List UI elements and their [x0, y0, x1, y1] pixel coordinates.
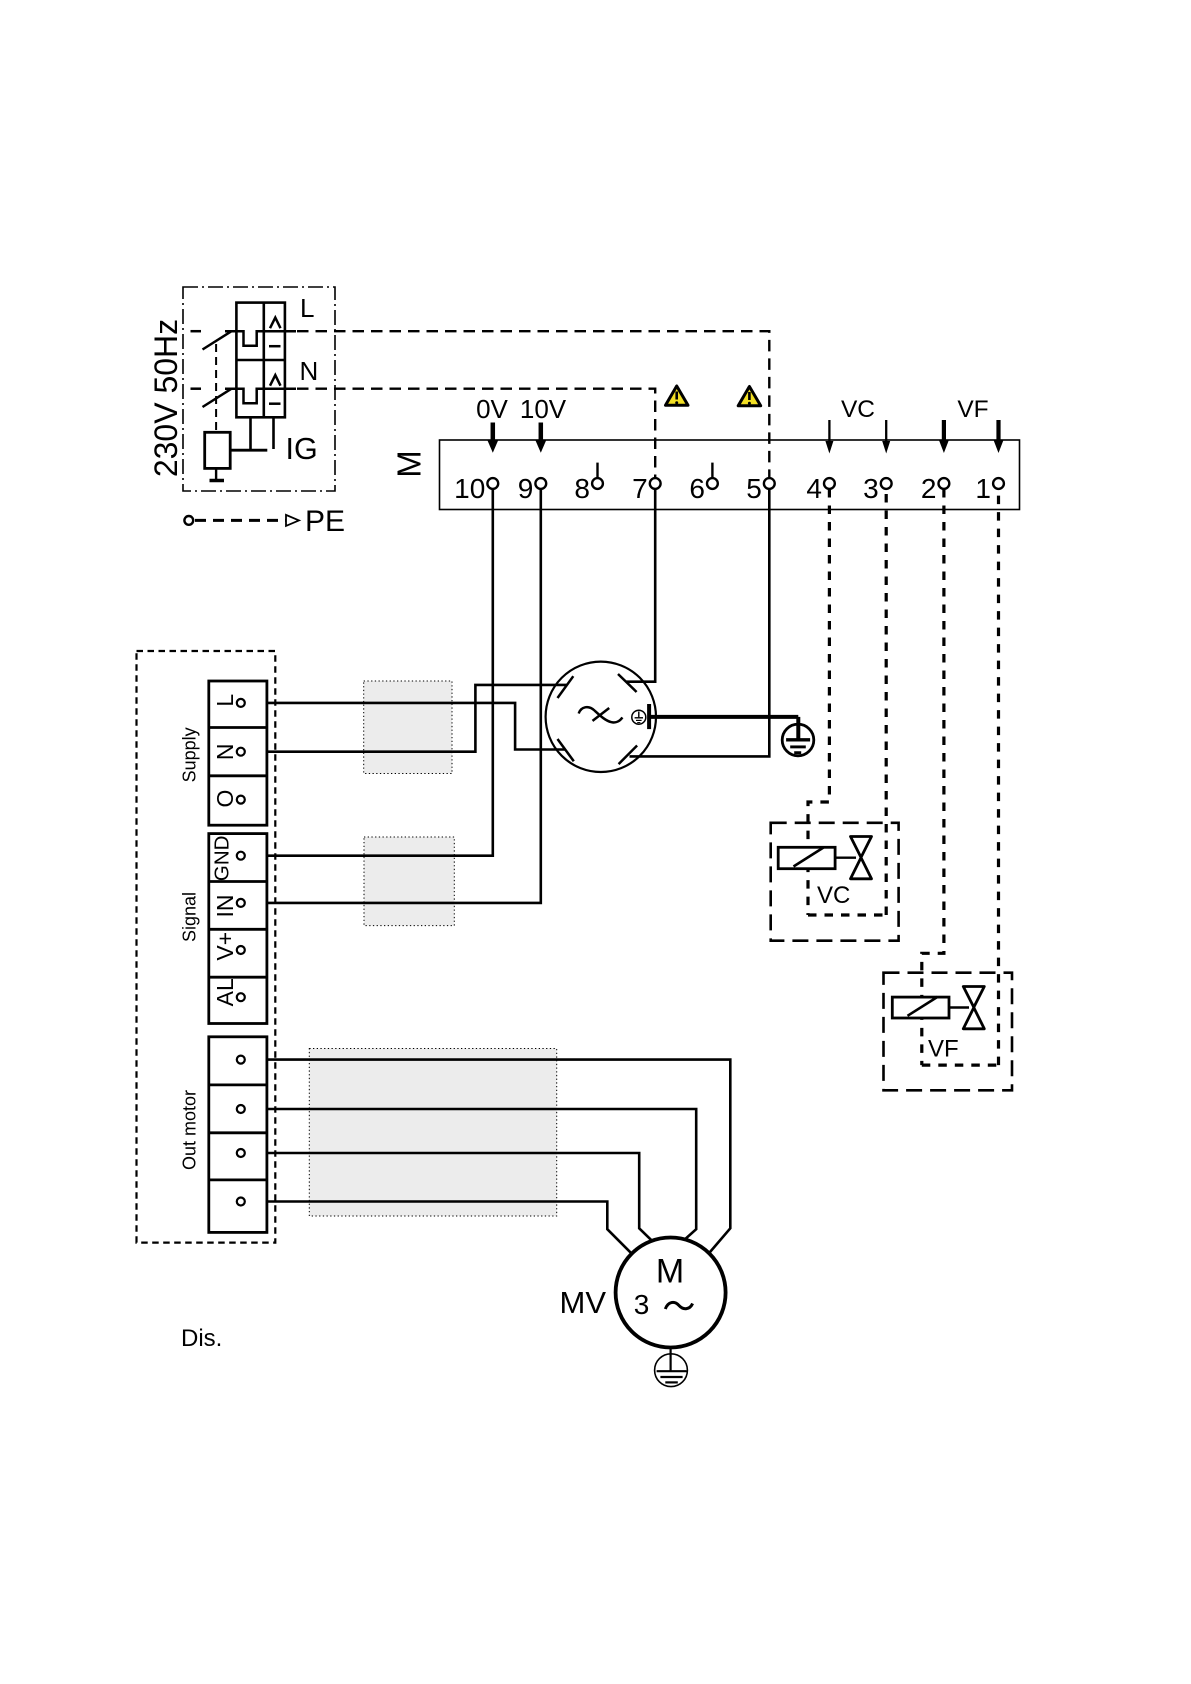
wire VC bottom link — [808, 913, 886, 916]
terminal blocks outer dotted box — [137, 651, 276, 1243]
wire out motor 2 — [245, 1109, 696, 1241]
shaded zone out-motor wires — [309, 1049, 556, 1217]
signal terminal V+ — [212, 932, 245, 961]
VC outer dashed box — [771, 823, 899, 941]
VF valve link — [949, 1006, 969, 1008]
svg-text:1: 1 — [975, 473, 991, 504]
svg-text:6: 6 — [689, 473, 705, 504]
wire L dashed to terminal 5 — [297, 331, 769, 478]
breaker pole N dash mark — [269, 402, 281, 405]
svg-text:V+: V+ — [212, 932, 238, 961]
terminal 8 — [574, 463, 602, 504]
wire terminal 9 to IN — [245, 489, 541, 903]
out motor terminal 4 — [237, 1198, 245, 1206]
terminal 3 — [863, 473, 891, 504]
svg-text:9: 9 — [518, 473, 534, 504]
fan earth terminal plate — [647, 704, 651, 729]
svg-text:10: 10 — [454, 473, 485, 504]
arrow terminal 4 — [825, 420, 833, 454]
svg-text:0V: 0V — [476, 394, 508, 424]
wire out motor 1 — [245, 1060, 731, 1253]
svg-text:3: 3 — [863, 473, 879, 504]
breaker pole N chevron — [270, 375, 281, 386]
terminal 10 — [454, 473, 498, 504]
svg-text:MV: MV — [560, 1285, 607, 1320]
wire supply N — [245, 685, 567, 752]
breaker pole L switch blade — [203, 331, 232, 349]
fan wave symbol — [579, 707, 623, 722]
supply terminal O — [212, 790, 245, 808]
svg-text:3: 3 — [634, 1289, 650, 1320]
out motor block — [209, 1037, 267, 1233]
fan tick SW — [558, 739, 574, 761]
motor tilde — [665, 1302, 692, 1309]
wire terminal 1 dashed — [997, 489, 1000, 1065]
VC valve link — [835, 857, 856, 859]
terminal 7 — [632, 473, 660, 504]
svg-text:2: 2 — [921, 473, 937, 504]
VC solenoid coil — [778, 847, 835, 868]
arrow terminal 3 — [882, 420, 890, 454]
enclosure box 230V 50Hz (dash-dot) — [183, 287, 335, 491]
VF solenoid coil — [892, 997, 949, 1018]
breaker IG outline — [236, 303, 285, 418]
terminal strip M box — [440, 440, 1020, 510]
signal terminal IN — [212, 895, 245, 918]
svg-text:8: 8 — [574, 473, 590, 504]
VF outer dashed box — [884, 973, 1013, 1091]
terminal 1 — [975, 473, 1003, 504]
terminal 5 — [746, 473, 774, 504]
wire N dashed to terminal 7 — [297, 389, 655, 478]
wire IG output — [230, 449, 267, 452]
wire breaker to IG right — [272, 417, 275, 449]
svg-text:GND: GND — [211, 836, 234, 882]
warning triangle right — [738, 387, 761, 406]
PE dashed arrow — [195, 519, 286, 522]
wire out motor 3 — [245, 1153, 653, 1241]
svg-text:L: L — [212, 694, 238, 707]
breaker pole N switch blade — [203, 389, 232, 407]
svg-text:N: N — [300, 356, 319, 386]
svg-text:O: O — [212, 790, 238, 808]
wire terminal 5 to fan — [630, 489, 770, 756]
wire terminal 7 to fan — [626, 489, 655, 682]
svg-text:5: 5 — [746, 473, 762, 504]
svg-text:10V: 10V — [520, 394, 567, 424]
motor earth circle — [655, 1354, 688, 1387]
wire supply L — [245, 703, 566, 750]
wire terminal 2 dashed to VF coil — [922, 489, 944, 1065]
svg-text:Signal: Signal — [179, 892, 199, 942]
mechanical linkage dashed — [215, 344, 217, 431]
out motor terminal 1 — [237, 1056, 245, 1064]
breaker pole N fuse element — [225, 389, 296, 404]
svg-text:Out motor: Out motor — [179, 1090, 199, 1170]
breaker pole L terminal stub — [191, 330, 202, 333]
wire VF bottom link — [922, 1063, 999, 1066]
svg-text:N: N — [212, 743, 238, 760]
svg-text:VF: VF — [957, 396, 988, 423]
svg-text:4: 4 — [806, 473, 822, 504]
terminal 4 — [806, 473, 834, 504]
svg-text:PE: PE — [305, 505, 345, 538]
wire breaker to IG left — [249, 417, 252, 450]
svg-text:VC: VC — [817, 882, 850, 909]
signal terminal AL — [212, 978, 245, 1006]
wire terminal 10 to GND — [245, 489, 493, 856]
svg-text:M: M — [656, 1253, 684, 1291]
IG ground bar — [210, 479, 225, 483]
svg-text:L: L — [300, 293, 314, 323]
wire fan earth to PE circle — [651, 715, 798, 719]
supply block — [209, 681, 267, 825]
wire terminal 3 dashed — [885, 489, 888, 915]
arrow terminal 1 — [994, 420, 1004, 453]
arrow terminal 2 — [939, 420, 949, 453]
IG box — [205, 432, 231, 468]
PE earth circle fan — [782, 717, 814, 756]
fan motor circle — [546, 662, 656, 772]
out motor terminal 3 — [237, 1149, 245, 1157]
motor MV circle — [616, 1238, 726, 1348]
breaker pole L dash mark — [269, 345, 281, 348]
fan tick NW — [558, 676, 574, 698]
breaker pole N terminal stub — [191, 387, 202, 390]
svg-text:Supply: Supply — [179, 727, 199, 782]
wire out motor 4 — [245, 1202, 632, 1254]
svg-text:VC: VC — [841, 396, 875, 423]
supply terminal L — [212, 694, 245, 707]
svg-text:IG: IG — [286, 432, 318, 466]
shaded zone signal wires — [364, 837, 454, 926]
wire terminal 4 dashed to VC coil — [808, 489, 829, 915]
svg-text:M: M — [391, 450, 428, 478]
svg-text:Dis.: Dis. — [181, 1325, 222, 1352]
svg-text:VF: VF — [928, 1036, 959, 1063]
supply terminal N — [212, 743, 245, 760]
VF valve body — [963, 987, 984, 1029]
arrow 0V — [487, 423, 498, 453]
fan tick SE — [619, 746, 638, 765]
arrow 10V — [535, 423, 546, 453]
motor earth stem — [669, 1347, 671, 1371]
signal terminal GND — [211, 836, 245, 882]
fan internal earth mark — [632, 710, 646, 724]
breaker pole L fuse element — [225, 331, 296, 346]
svg-text:230V 50Hz: 230V 50Hz — [148, 319, 184, 477]
terminal 2 — [921, 473, 949, 504]
svg-text:7: 7 — [632, 473, 648, 504]
warning triangle left — [666, 386, 689, 405]
PE terminal circle — [184, 516, 193, 525]
svg-text:IN: IN — [212, 895, 238, 918]
terminal 6 — [689, 463, 717, 504]
VC valve body — [851, 837, 872, 879]
svg-text:AL: AL — [212, 978, 238, 1006]
IG ground stem — [215, 468, 217, 479]
signal block — [209, 834, 267, 1024]
fan tick NE — [618, 674, 637, 692]
out motor terminal 2 — [237, 1105, 245, 1113]
breaker pole L chevron — [270, 318, 281, 329]
terminal 9 — [518, 473, 546, 504]
fan wave cross stroke — [593, 708, 610, 721]
shaded zone supply wires — [364, 681, 452, 774]
